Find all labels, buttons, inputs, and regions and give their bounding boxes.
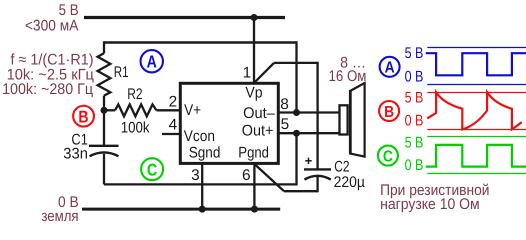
waveform label C (circled) [378, 146, 398, 166]
resistor R2 [115, 104, 156, 116]
svg-text:земля: земля [41, 208, 78, 225]
node junction pin 8 / node A [293, 109, 300, 116]
svg-text:5: 5 [281, 116, 290, 133]
svg-text:8: 8 [280, 96, 289, 113]
svg-text:C: C [147, 161, 157, 180]
wire C2 bottom vertical [316, 177, 318, 193]
wire C1 bottom down [103, 154, 105, 185]
svg-text:220µ: 220µ [334, 174, 365, 191]
waveform A 5V reference line [427, 47, 526, 49]
svg-text:B: B [78, 107, 88, 126]
wire R1 bottom to node B [103, 96, 105, 111]
wire pin 3 to ground [201, 163, 203, 209]
wire pin 6 to ground [253, 163, 255, 209]
wire C1 to Out+ horizontal [104, 183, 297, 185]
svg-text:4: 4 [169, 117, 178, 134]
waveform C 5V reference line [427, 136, 526, 138]
ground junction pin 3 [199, 206, 206, 213]
ground junction pin 6 [251, 206, 258, 213]
waveform label B (circled) [379, 101, 399, 121]
wire node A right down to pin 8 [295, 41, 297, 112]
node junction pin 5 / Out+ [293, 130, 300, 137]
wire Vp vertical down to C2 top [316, 62, 318, 170]
svg-text:1: 1 [243, 65, 252, 82]
C2 plus sign [305, 158, 311, 164]
node label B (circled) [73, 106, 94, 127]
svg-text:33n: 33n [63, 145, 88, 162]
ground rail [82, 208, 280, 211]
capacitor C1 [89, 146, 119, 156]
wire R2 to pin 2 [156, 109, 180, 111]
waveform B 0V reference line [427, 129, 526, 131]
node label A (circled) [141, 50, 163, 72]
svg-text:<300 мА: <300 мА [25, 18, 79, 35]
waveform A square wave [426, 53, 526, 75]
svg-text:100k: ~280 Гц: 100k: ~280 Гц [2, 81, 93, 98]
svg-text:B: B [384, 104, 394, 121]
waveform label A (circled) [380, 57, 400, 77]
svg-text:6: 6 [242, 167, 251, 184]
svg-text:0 В: 0 В [405, 68, 424, 85]
waveform B 5V reference line [427, 92, 526, 94]
svg-text:нагрузке 10 Ом: нагрузке 10 Ом [380, 196, 480, 213]
wire Vp: rail to pin 1 [253, 18, 255, 84]
svg-text:100k: 100k [121, 120, 150, 137]
waveform A 0V reference line [427, 84, 526, 86]
svg-text:3: 3 [191, 167, 200, 184]
svg-text:Out+: Out+ [242, 123, 274, 140]
wire C2 bottom horizontal [284, 190, 318, 192]
waveform C 0V reference line [427, 173, 526, 175]
svg-text:A: A [385, 60, 395, 77]
waveform C square wave [426, 145, 526, 167]
svg-text:A: A [147, 52, 157, 72]
wire Vp horizontal to C2 [274, 62, 318, 64]
wire Out- pin 8 to speaker [280, 111, 340, 113]
wire node A left down to R1 [103, 41, 105, 53]
svg-text:R1: R1 [114, 64, 129, 81]
svg-text:Vp: Vp [245, 85, 262, 102]
svg-text:Vcon: Vcon [184, 128, 215, 145]
node label C (circled) [141, 158, 163, 180]
svg-text:5 В: 5 В [59, 2, 79, 19]
op-amp U1 IC box [180, 83, 278, 163]
svg-text:C: C [383, 148, 393, 165]
5V power rail [84, 16, 285, 19]
svg-text:5 В: 5 В [405, 90, 424, 107]
svg-text:V+: V+ [184, 102, 201, 119]
wire Out+ pin 5 to speaker [280, 132, 340, 134]
svg-text:2: 2 [169, 93, 178, 110]
wire node B down to C1 [103, 110, 105, 146]
pin 4 stub wire [162, 133, 180, 135]
svg-text:Sgnd: Sgnd [189, 144, 221, 161]
wire Pgnd diagonal to C2 bottom [255, 165, 284, 192]
node 5V rail junction [251, 14, 258, 21]
wire node A horizontal [104, 41, 297, 43]
svg-text:16 Ом: 16 Ом [329, 68, 367, 85]
svg-text:0 В: 0 В [405, 113, 424, 130]
speaker LS1 [340, 83, 365, 157]
node B junction [101, 107, 108, 114]
wire Vp diagonal from pin 1 [254, 63, 274, 83]
svg-text:5 В: 5 В [405, 45, 424, 62]
resistor R1 [98, 53, 111, 95]
capacitor C2 [304, 169, 331, 179]
wire node B to R2 [104, 109, 115, 111]
svg-text:R2: R2 [127, 86, 142, 103]
svg-text:0 В: 0 В [405, 157, 424, 174]
svg-text:Pgnd: Pgnd [238, 144, 269, 161]
svg-text:Out–: Out– [243, 105, 275, 122]
waveform B sawtooth curve [427, 92, 522, 129]
svg-text:5 В: 5 В [405, 134, 424, 151]
wire Out+ vertical down [295, 133, 297, 185]
